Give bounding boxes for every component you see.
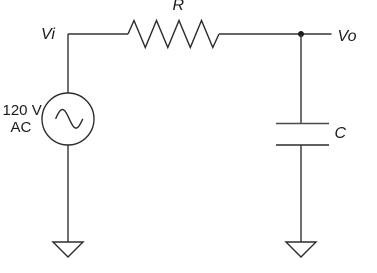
capacitor C bottom plate (276, 144, 329, 146)
wire resistor to Vo (219, 33, 332, 35)
node junction dot (298, 31, 304, 37)
ground (right) (286, 242, 316, 257)
wire top-left horizontal (Vi node to resistor) (68, 33, 128, 35)
AC source sine wave (56, 110, 83, 129)
resistor value label R (173, 0, 185, 14)
source value label 120 V AC (3, 102, 42, 136)
wire capacitor to right ground (300, 145, 302, 242)
wire source to left ground (67, 145, 69, 242)
wire Vo node down to capacitor (300, 34, 302, 124)
node label Vo (338, 29, 357, 45)
ground (left) (53, 242, 83, 257)
AC source V1 circle (42, 93, 94, 145)
wire left vertical (Vi down to source) (67, 34, 69, 93)
resistor R (128, 21, 219, 48)
capacitor C top plate (276, 123, 329, 125)
node label Vi (41, 27, 55, 43)
capacitor value label C (335, 126, 347, 142)
